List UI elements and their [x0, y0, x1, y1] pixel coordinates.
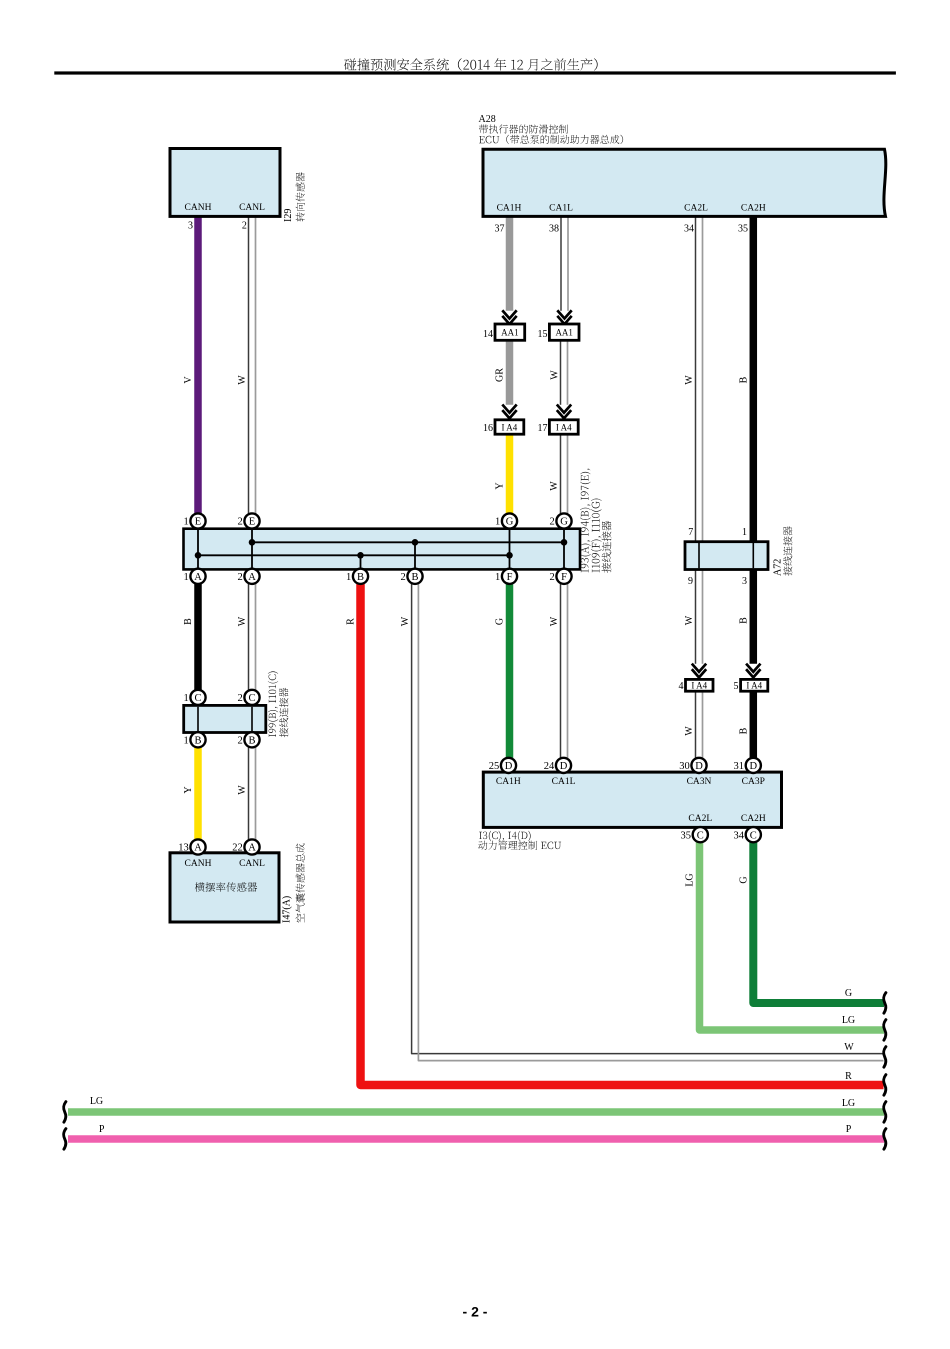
svg-text:2: 2	[242, 221, 247, 232]
svg-text:AA1: AA1	[555, 328, 573, 338]
svg-text:22: 22	[232, 843, 243, 854]
svg-text:A: A	[248, 572, 256, 583]
svg-text:CA2H: CA2H	[741, 814, 766, 824]
svg-text:37: 37	[495, 224, 505, 235]
svg-text:F: F	[507, 572, 513, 583]
svg-text:C: C	[697, 830, 704, 841]
svg-text:I47(A): I47(A)	[282, 896, 293, 923]
svg-text:14: 14	[483, 329, 493, 340]
svg-text:W: W	[400, 616, 411, 626]
svg-text:31: 31	[734, 761, 745, 772]
svg-text:GR: GR	[495, 368, 506, 382]
svg-text:I A4: I A4	[556, 422, 572, 432]
svg-text:R: R	[845, 1071, 852, 1082]
svg-text:25: 25	[489, 761, 500, 772]
svg-text:2: 2	[400, 572, 405, 583]
svg-text:A28: A28	[479, 114, 496, 125]
svg-text:2: 2	[549, 572, 554, 583]
svg-text:30: 30	[679, 761, 690, 772]
svg-text:LG: LG	[842, 1098, 855, 1109]
svg-text:CANH: CANH	[185, 859, 212, 869]
svg-text:1: 1	[346, 572, 351, 583]
svg-text:CA1H: CA1H	[497, 204, 522, 214]
svg-text:CA3N: CA3N	[687, 777, 712, 787]
svg-text:5: 5	[734, 681, 739, 692]
svg-text:1: 1	[183, 517, 188, 528]
svg-text:A: A	[194, 843, 202, 854]
svg-text:W: W	[237, 785, 248, 795]
svg-text:CA1L: CA1L	[549, 204, 573, 214]
svg-text:C: C	[194, 693, 201, 704]
svg-text:2: 2	[237, 517, 242, 528]
svg-text:A: A	[248, 843, 256, 854]
svg-text:15: 15	[538, 329, 548, 340]
svg-text:16: 16	[483, 423, 493, 434]
svg-text:1: 1	[742, 527, 747, 538]
svg-text:B: B	[739, 376, 750, 383]
svg-text:CA2L: CA2L	[684, 204, 708, 214]
svg-text:CA1H: CA1H	[496, 777, 521, 787]
svg-text:CANL: CANL	[239, 203, 265, 213]
svg-text:2: 2	[237, 572, 242, 583]
svg-text:AA1: AA1	[501, 328, 519, 338]
svg-text:P: P	[846, 1124, 852, 1135]
svg-text:V: V	[183, 376, 194, 384]
svg-text:CANL: CANL	[239, 859, 265, 869]
svg-text:B: B	[411, 572, 418, 583]
svg-text:C: C	[248, 693, 255, 704]
svg-text:CA2H: CA2H	[741, 204, 766, 214]
svg-text:W: W	[549, 616, 560, 626]
svg-text:G: G	[495, 618, 506, 625]
svg-text:B: B	[739, 617, 750, 624]
svg-text:B: B	[248, 736, 255, 747]
svg-text:LG: LG	[685, 873, 696, 886]
svg-text:Y: Y	[495, 482, 506, 489]
svg-text:C: C	[750, 830, 757, 841]
svg-text:B: B	[357, 572, 364, 583]
svg-text:CA2L: CA2L	[688, 814, 712, 824]
svg-text:34: 34	[684, 224, 694, 235]
svg-text:W: W	[549, 481, 560, 491]
svg-text:1: 1	[495, 572, 500, 583]
svg-text:3: 3	[742, 576, 747, 587]
svg-text:G: G	[506, 517, 514, 528]
svg-text:CA3P: CA3P	[742, 777, 765, 787]
svg-text:2: 2	[237, 693, 242, 704]
svg-text:A72: A72	[773, 559, 784, 576]
svg-text:W: W	[684, 615, 695, 625]
svg-text:7: 7	[688, 527, 693, 538]
svg-text:W: W	[844, 1042, 854, 1053]
svg-text:13: 13	[178, 843, 189, 854]
svg-text:D: D	[560, 761, 568, 772]
svg-text:E: E	[195, 517, 201, 528]
svg-text:I A4: I A4	[691, 681, 707, 691]
svg-text:38: 38	[549, 224, 559, 235]
svg-text:3: 3	[188, 221, 193, 232]
svg-text:W: W	[237, 616, 248, 626]
svg-text:35: 35	[738, 224, 748, 235]
svg-text:CANH: CANH	[185, 203, 212, 213]
svg-text:W: W	[684, 375, 695, 385]
svg-text:A: A	[194, 572, 202, 583]
svg-text:P: P	[99, 1124, 105, 1135]
svg-text:LG: LG	[842, 1015, 855, 1026]
svg-text:D: D	[695, 761, 703, 772]
svg-text:I A4: I A4	[502, 422, 518, 432]
svg-text:I A4: I A4	[746, 681, 762, 691]
svg-text:D: D	[505, 761, 513, 772]
svg-text:G: G	[739, 876, 750, 883]
svg-text:B: B	[183, 618, 194, 625]
svg-text:F: F	[561, 572, 567, 583]
svg-text:Y: Y	[183, 786, 194, 793]
svg-text:B: B	[739, 727, 750, 734]
svg-text:4: 4	[679, 681, 684, 692]
svg-text:- 2 -: - 2 -	[463, 1304, 488, 1320]
svg-text:2: 2	[237, 735, 242, 746]
svg-text:I29: I29	[283, 209, 294, 222]
svg-text:1: 1	[495, 517, 500, 528]
svg-text:1: 1	[183, 572, 188, 583]
svg-text:E: E	[249, 517, 255, 528]
svg-text:9: 9	[688, 576, 693, 587]
svg-text:W: W	[237, 375, 248, 385]
svg-text:17: 17	[538, 423, 548, 434]
svg-text:W: W	[684, 726, 695, 736]
svg-text:CA1L: CA1L	[552, 777, 576, 787]
svg-text:24: 24	[544, 761, 555, 772]
svg-text:W: W	[550, 370, 561, 380]
svg-text:R: R	[346, 618, 357, 625]
svg-text:1: 1	[183, 693, 188, 704]
svg-text:G: G	[845, 988, 852, 999]
svg-text:1: 1	[183, 735, 188, 746]
svg-text:2: 2	[549, 517, 554, 528]
svg-text:34: 34	[734, 830, 745, 841]
svg-text:B: B	[194, 736, 201, 747]
svg-text:35: 35	[681, 830, 692, 841]
svg-text:D: D	[750, 761, 758, 772]
svg-text:G: G	[560, 517, 568, 528]
svg-text:LG: LG	[90, 1096, 103, 1107]
